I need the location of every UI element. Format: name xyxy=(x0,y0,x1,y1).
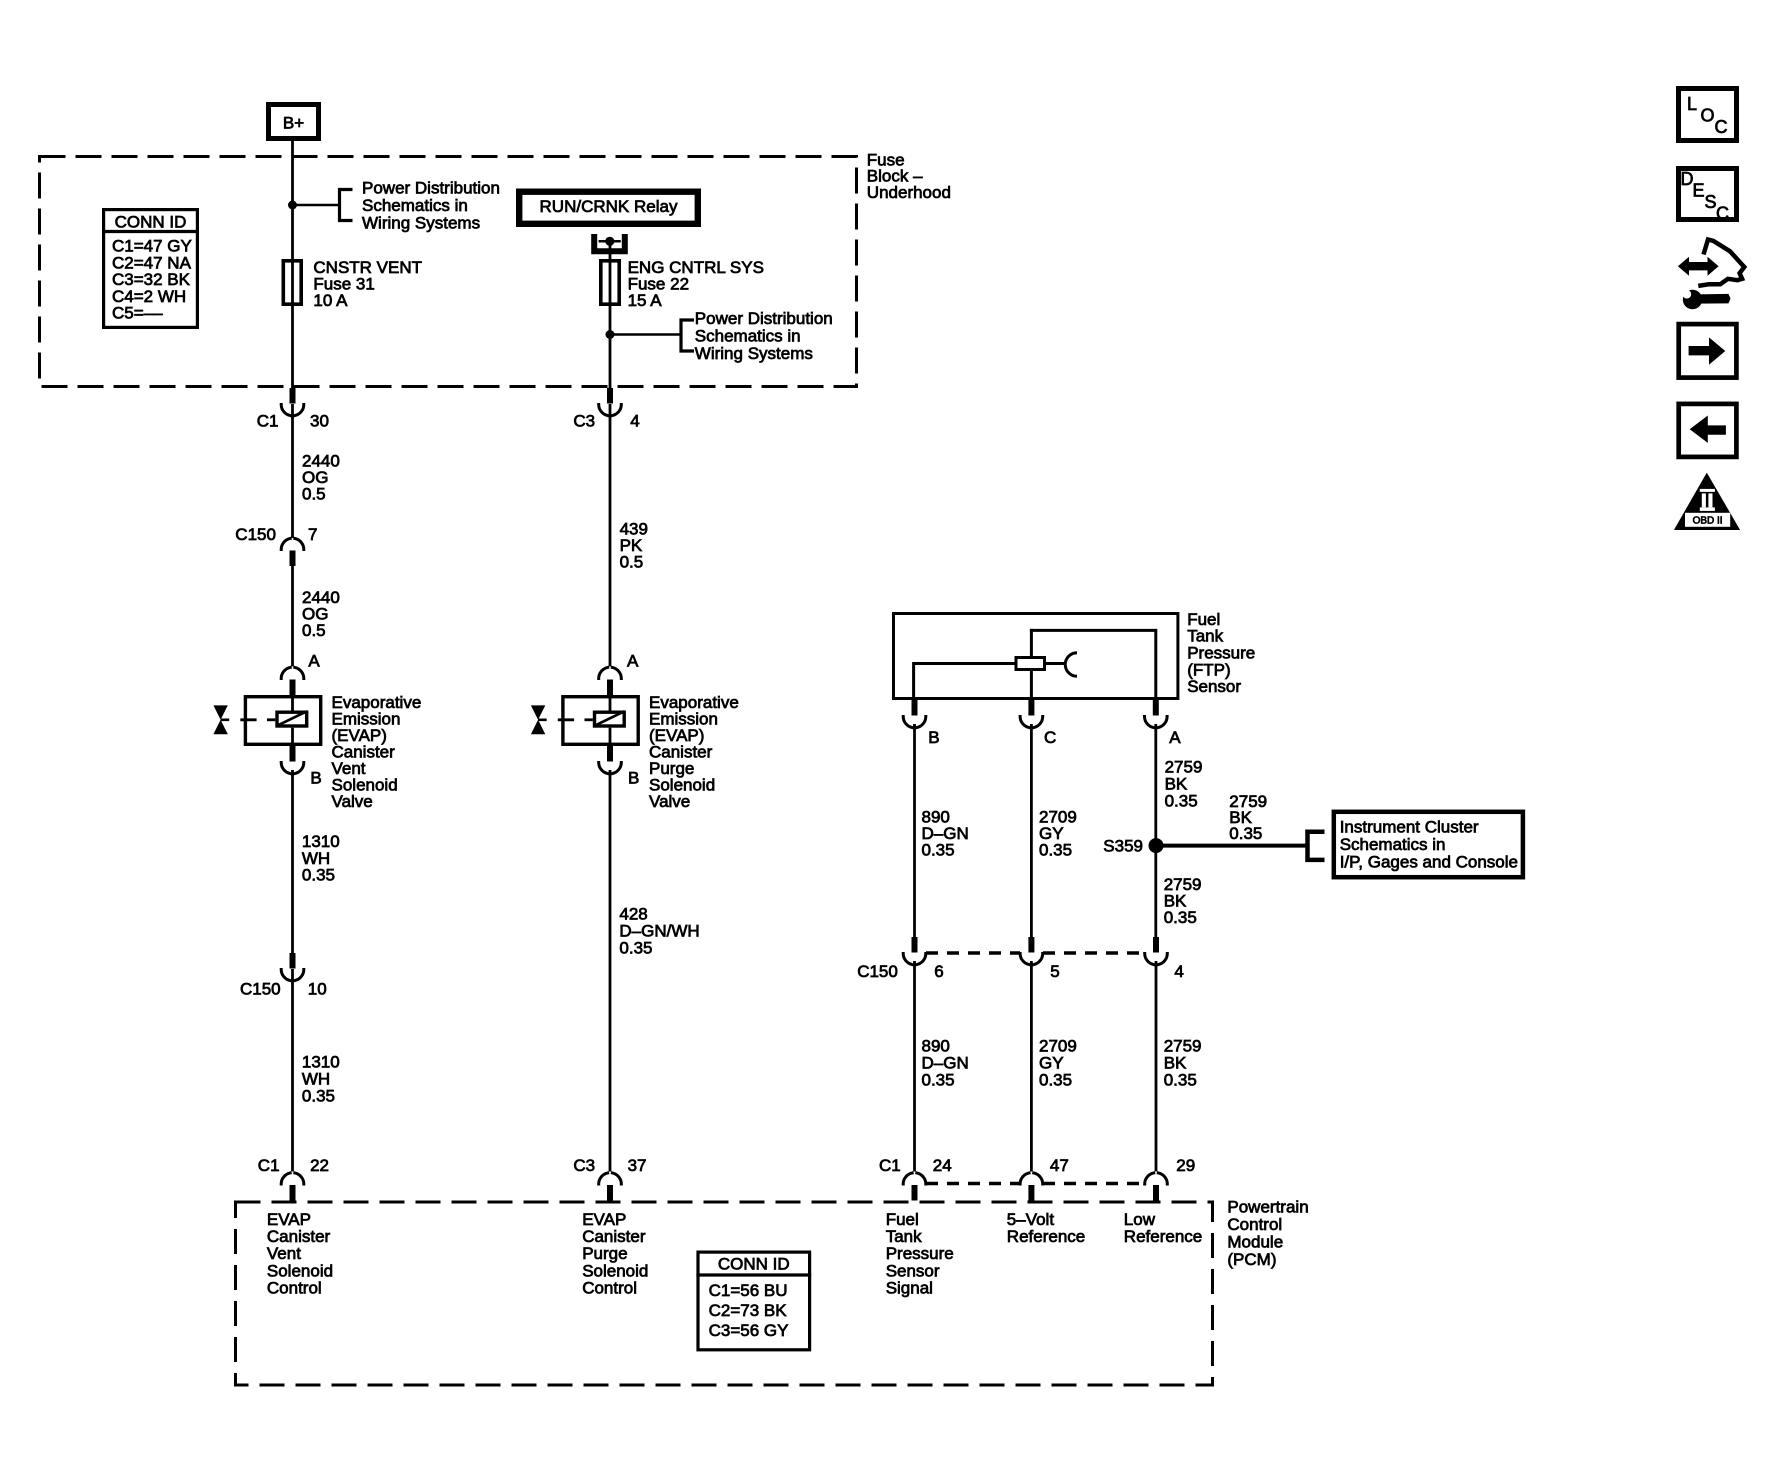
junction below fuse 22 xyxy=(606,330,615,339)
relay box RUN/CRNK xyxy=(519,192,698,224)
instrument cluster box xyxy=(1334,812,1523,877)
svg-text:L: L xyxy=(1687,94,1697,114)
fuse ENG CNTRL SYS Fuse 22 xyxy=(601,261,619,304)
svg-text:C150: C150 xyxy=(235,525,276,544)
svg-text:O: O xyxy=(1701,106,1715,126)
FTP internal wire to wiper xyxy=(1046,662,1065,665)
svg-text:Valve: Valve xyxy=(332,792,373,811)
svg-text:C1: C1 xyxy=(258,1156,280,1175)
wire relay to ENG CNTRL SYS fuse xyxy=(609,241,612,388)
svg-text:C3: C3 xyxy=(573,412,595,431)
svg-text:Module: Module xyxy=(1227,1233,1283,1252)
svg-text:0.5: 0.5 xyxy=(302,621,326,640)
svg-text:C3=56 GY: C3=56 GY xyxy=(709,1321,789,1340)
wire 1310 WH upper xyxy=(291,770,294,953)
svg-text:Wiring Systems: Wiring Systems xyxy=(695,344,813,363)
svg-text:B: B xyxy=(928,728,939,747)
icon back arrow box xyxy=(1679,404,1737,457)
svg-text:0.5: 0.5 xyxy=(620,553,644,572)
svg-text:C1=56 BU: C1=56 BU xyxy=(709,1281,788,1300)
svg-text:RUN/CRNK Relay: RUN/CRNK Relay xyxy=(540,197,678,216)
connector pin B vent solenoid xyxy=(290,746,296,762)
svg-text:5: 5 xyxy=(1050,962,1059,981)
svg-text:Valve: Valve xyxy=(649,792,690,811)
svg-text:C2=73 BK: C2=73 BK xyxy=(709,1301,788,1320)
svg-text:CONN ID: CONN ID xyxy=(718,1254,790,1273)
wire 1310 WH lower xyxy=(291,969,294,1172)
callout bracket (instrument cluster) xyxy=(1308,832,1325,860)
fuse CNSTR VENT Fuse 31 xyxy=(283,261,301,304)
wire 890 D-GN lower xyxy=(913,961,916,1172)
callout bracket (power distribution, right) xyxy=(681,320,694,351)
svg-text:0.35: 0.35 xyxy=(922,1071,955,1090)
wire 2440 OG lower xyxy=(291,566,294,667)
icon vehicle outline xyxy=(1698,240,1744,286)
svg-text:0.35: 0.35 xyxy=(922,840,955,859)
wire 428 D-GN/WH xyxy=(609,770,612,1172)
svg-text:Control: Control xyxy=(1227,1215,1282,1234)
svg-text:B: B xyxy=(310,768,321,787)
svg-text:Power Distribution: Power Distribution xyxy=(695,309,833,328)
fuel tank pressure sensor box xyxy=(894,614,1178,699)
connector C150 pin 6 xyxy=(912,937,918,953)
svg-text:CONN ID: CONN ID xyxy=(115,212,187,231)
svg-text:Reference: Reference xyxy=(1124,1227,1202,1246)
svg-text:C1: C1 xyxy=(879,1156,901,1175)
wire 890 D-GN upper xyxy=(913,724,916,937)
connector FTP pin A xyxy=(1153,700,1159,716)
svg-text:4: 4 xyxy=(1174,962,1183,981)
svg-text:7: 7 xyxy=(308,525,317,544)
junction on B+ wire xyxy=(288,201,297,210)
svg-text:I/P, Gages and Console: I/P, Gages and Console xyxy=(1340,852,1518,871)
svg-text:E: E xyxy=(1693,181,1705,201)
connector C1 pin 22 xyxy=(290,1185,296,1201)
connector C150 pin 5 xyxy=(1028,937,1034,953)
svg-text:Wiring Systems: Wiring Systems xyxy=(362,213,480,232)
FTP internal wire B xyxy=(914,662,1015,665)
FTP sensor wiper arc xyxy=(1065,653,1077,677)
svg-text:0.35: 0.35 xyxy=(619,939,652,958)
svg-text:Signal: Signal xyxy=(886,1278,933,1297)
connector C3 pin 37 xyxy=(607,1185,613,1201)
svg-text:C150: C150 xyxy=(240,980,281,999)
svg-text:S359: S359 xyxy=(1103,837,1143,856)
svg-text:Sensor: Sensor xyxy=(1187,677,1241,696)
svg-text:Schematics in: Schematics in xyxy=(362,196,468,215)
svg-text:30: 30 xyxy=(310,412,329,431)
EVAP canister purge solenoid valve xyxy=(563,697,638,745)
wire 2709 GY upper xyxy=(1030,724,1033,937)
svg-text:Control: Control xyxy=(582,1278,637,1297)
callout bracket (power distribution, left) xyxy=(340,190,353,221)
relay output terminal xyxy=(594,234,625,251)
svg-text:S: S xyxy=(1705,192,1717,212)
svg-text:C: C xyxy=(1044,728,1056,747)
connector row C150 dashed link xyxy=(926,951,1020,955)
svg-text:Underhood: Underhood xyxy=(867,183,951,202)
svg-text:0.35: 0.35 xyxy=(1165,791,1198,810)
svg-text:C3: C3 xyxy=(573,1156,595,1175)
svg-text:B+: B+ xyxy=(283,114,304,133)
svg-text:0.35: 0.35 xyxy=(302,866,335,885)
svg-text:Powertrain: Powertrain xyxy=(1227,1198,1308,1217)
wire B+ feed to CNSTR VENT fuse xyxy=(291,141,294,388)
connector C3 pin 4 xyxy=(607,388,613,404)
icon OBD II xyxy=(1674,473,1740,530)
svg-text:Schematics in: Schematics in xyxy=(695,327,801,346)
svg-text:C5=––: C5=–– xyxy=(112,304,163,323)
svg-text:24: 24 xyxy=(933,1156,952,1175)
powertrain control module dashed box xyxy=(236,1202,1213,1385)
icon vehicle double arrow xyxy=(1678,257,1719,276)
conn id table (fuse block) xyxy=(104,210,198,328)
svg-text:29: 29 xyxy=(1176,1156,1195,1175)
svg-text:B: B xyxy=(628,768,639,787)
wire junction to callout bracket xyxy=(293,204,340,207)
connector C1 pin 30 xyxy=(290,388,296,404)
svg-text:4: 4 xyxy=(630,412,639,431)
FTP sensor element xyxy=(1016,658,1045,670)
connector C150 pin 4 xyxy=(1153,937,1159,953)
svg-text:10 A: 10 A xyxy=(313,291,348,310)
svg-text:0.35: 0.35 xyxy=(1164,908,1197,927)
icon LOC box xyxy=(1679,89,1737,141)
svg-text:Reference: Reference xyxy=(1007,1227,1085,1246)
svg-text:C: C xyxy=(1715,117,1728,137)
connector C1 pin 29 xyxy=(1153,1185,1159,1201)
wire 2759 BK upper xyxy=(1154,724,1157,937)
svg-text:0.35: 0.35 xyxy=(302,1086,335,1105)
wire junction to callout bracket (right) xyxy=(610,333,681,336)
connector FTP pin C xyxy=(1028,700,1034,716)
svg-text:10: 10 xyxy=(308,980,327,999)
svg-text:C: C xyxy=(1716,204,1729,224)
fuse block underhood dashed box xyxy=(40,157,857,387)
svg-text:C1: C1 xyxy=(257,412,279,431)
svg-text:(PCM): (PCM) xyxy=(1227,1250,1276,1269)
splice S359 xyxy=(1149,838,1164,853)
wire 2709 GY lower xyxy=(1030,961,1033,1172)
icon DESC box xyxy=(1679,169,1737,220)
connector pin B purge solenoid xyxy=(607,746,613,762)
svg-text:Instrument Cluster: Instrument Cluster xyxy=(1340,817,1479,836)
svg-text:0.35: 0.35 xyxy=(1164,1071,1197,1090)
svg-text:OBD II: OBD II xyxy=(1693,516,1723,527)
icon forward arrow box xyxy=(1679,324,1737,378)
connector C1 pin 24 xyxy=(912,1185,918,1201)
wire 2440 OG upper xyxy=(291,404,294,538)
wire 439 PK xyxy=(609,404,612,667)
svg-text:C150: C150 xyxy=(857,962,898,981)
connector C1 pin 47 xyxy=(1028,1185,1034,1201)
svg-text:6: 6 xyxy=(934,962,943,981)
FTP internal wire A xyxy=(1030,629,1033,656)
connector pin A vent solenoid xyxy=(290,680,296,696)
FTP internal wire C xyxy=(1030,671,1033,700)
svg-text:Schematics in: Schematics in xyxy=(1340,835,1446,854)
connector FTP pin B xyxy=(912,700,918,716)
svg-text:22: 22 xyxy=(310,1156,329,1175)
connector row C1 dashed link xyxy=(926,1182,1020,1186)
svg-text:0.5: 0.5 xyxy=(302,485,326,504)
svg-text:Power Distribution: Power Distribution xyxy=(362,178,500,197)
conn id table (PCM) xyxy=(698,1252,810,1350)
svg-text:A: A xyxy=(308,652,320,671)
svg-text:0.35: 0.35 xyxy=(1039,840,1072,859)
wire 2759 BK lower xyxy=(1155,961,1158,1172)
svg-text:0.35: 0.35 xyxy=(1229,824,1262,843)
svg-text:37: 37 xyxy=(628,1156,647,1175)
svg-text:A: A xyxy=(627,652,639,671)
EVAP canister vent solenoid valve xyxy=(245,697,320,745)
icon wrench xyxy=(1683,290,1702,309)
connector pin A purge solenoid xyxy=(607,680,613,696)
svg-text:47: 47 xyxy=(1050,1156,1069,1175)
svg-text:15 A: 15 A xyxy=(628,291,663,310)
connector C150 pin 10 xyxy=(290,953,296,969)
wire S359 to instrument cluster xyxy=(1156,844,1308,848)
svg-text:A: A xyxy=(1169,728,1181,747)
connector C150 pin 7 xyxy=(290,551,296,567)
svg-text:0.35: 0.35 xyxy=(1039,1071,1072,1090)
power symbol B+ xyxy=(269,105,319,139)
svg-text:Control: Control xyxy=(267,1278,322,1297)
